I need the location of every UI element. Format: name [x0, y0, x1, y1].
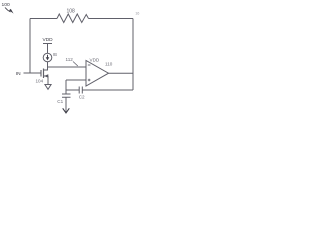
resistor R (feedback)	[57, 14, 89, 23]
capacitor C1 plates	[62, 94, 71, 97]
wire source to ground	[47, 76, 49, 85]
wire current source to drain node	[47, 62, 49, 70]
wire bottom horizontal right of C2	[82, 89, 133, 91]
transistor M1 gate bar	[40, 70, 42, 77]
VDD supply symbol	[43, 37, 54, 53]
svg-text:108: 108	[67, 9, 76, 15]
svg-text:112: 112	[66, 57, 74, 62]
svg-text:C2: C2	[79, 95, 85, 100]
transistor M1 drain lead	[44, 69, 48, 71]
svg-text:VDD: VDD	[90, 58, 100, 63]
wire gate horizontal	[24, 72, 42, 74]
transistor M1 channel bar	[43, 69, 45, 79]
svg-text:C1: C1	[57, 99, 63, 104]
wire right vertical (feedback from output)	[132, 19, 134, 91]
op-amp plus sign	[88, 79, 91, 82]
svg-text:VDD: VDD	[43, 37, 54, 43]
ground (C1) arrow	[63, 108, 70, 113]
node label 112 with leader	[66, 57, 78, 66]
wire C1 to ground	[65, 97, 67, 112]
wire drain node to op-amp inverting input	[48, 66, 87, 68]
wire top-left horizontal	[30, 18, 57, 20]
op-amp U1 triangle	[86, 61, 109, 87]
svg-text:IB: IB	[53, 52, 57, 57]
op-amp minus sign	[88, 64, 91, 66]
svg-text:100: 100	[2, 2, 10, 8]
wire op-amp plus input horizontal	[66, 79, 86, 81]
wire plus input vertical down to C1	[65, 80, 67, 94]
svg-text:110: 110	[105, 62, 113, 67]
wire op-amp output	[109, 72, 134, 74]
wire bottom horizontal left of C2	[66, 89, 79, 91]
wire top-right horizontal	[89, 18, 134, 20]
capacitor C2 plates	[79, 87, 82, 94]
svg-text:16: 16	[135, 12, 139, 16]
svg-text:104: 104	[36, 79, 44, 84]
wire left vertical (to gate node)	[29, 19, 31, 74]
node label 100 (figure reference)	[2, 2, 14, 14]
ground (source) arrow	[45, 85, 51, 90]
current source IB circle	[43, 53, 52, 62]
svg-text:IN: IN	[16, 71, 21, 77]
transistor M1 source lead with arrow	[44, 75, 48, 77]
